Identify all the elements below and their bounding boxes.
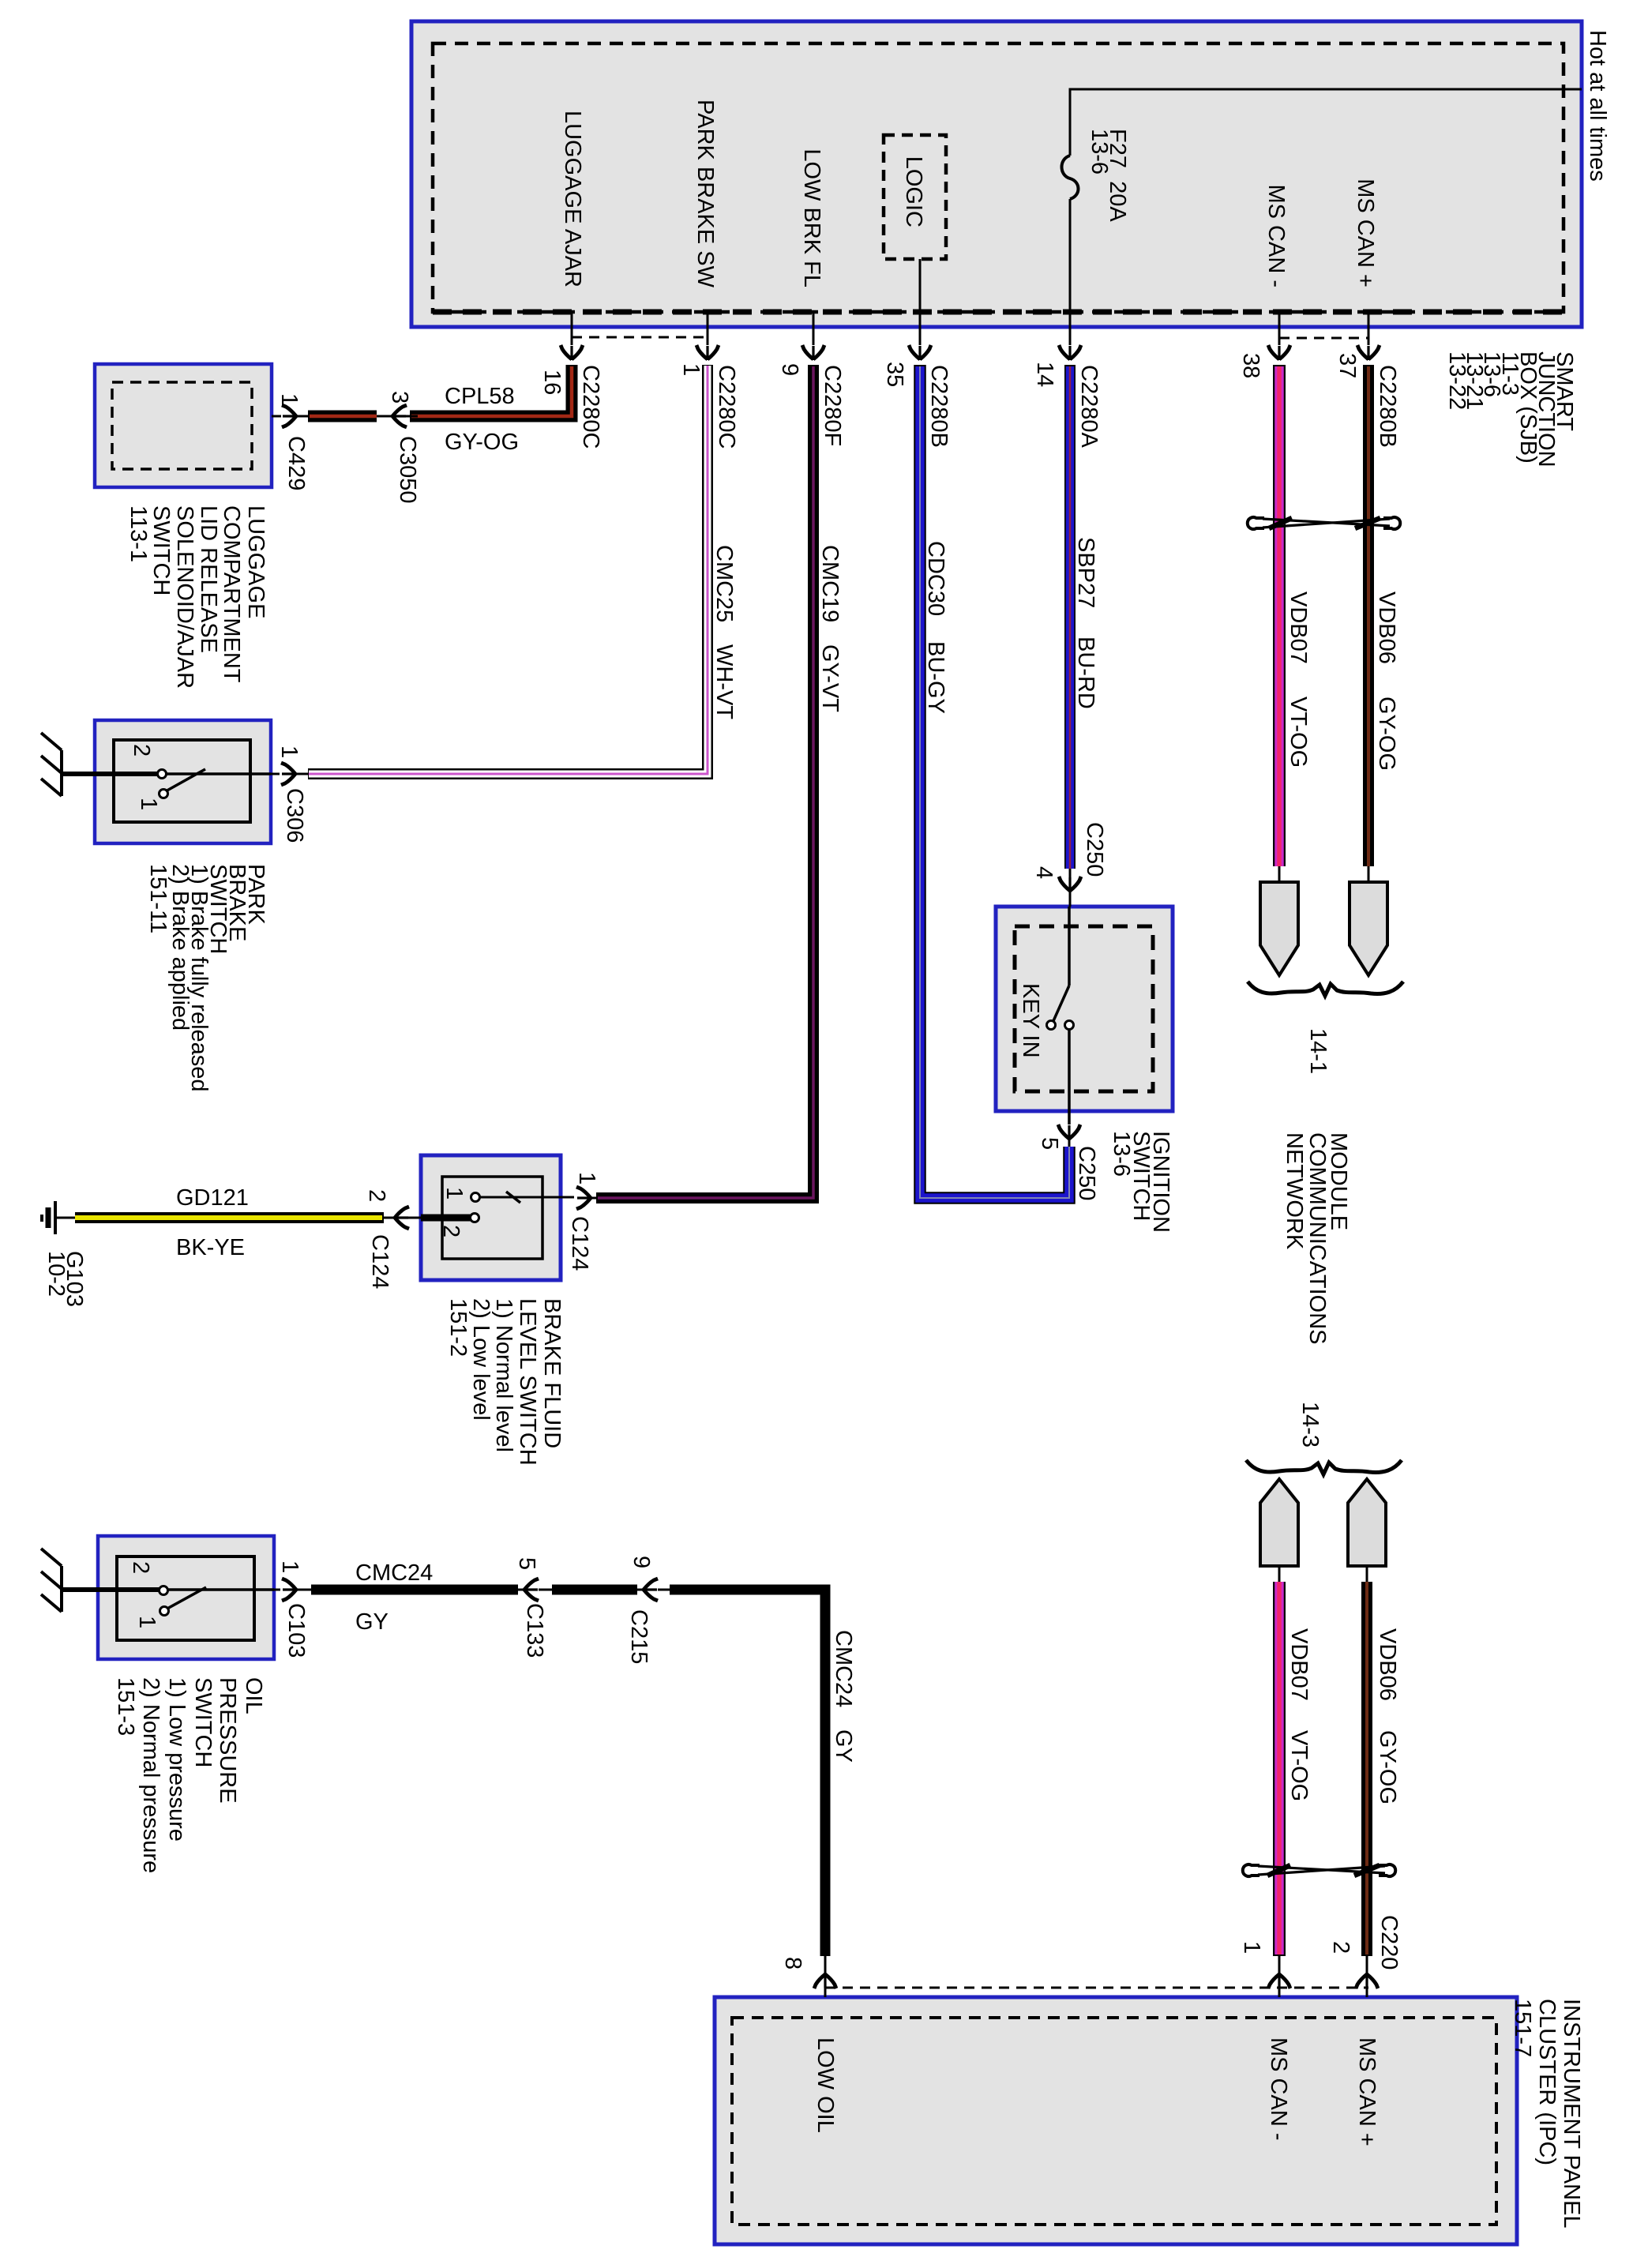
wire: pin stubs from SJB dashed border <box>571 312 573 345</box>
svg-text:C2280C: C2280C <box>714 365 739 449</box>
ignition switch box <box>996 907 1173 1111</box>
svg-text:2) Low level: 2) Low level <box>468 1298 494 1421</box>
svg-text:151-3: 151-3 <box>113 1677 138 1736</box>
svg-text:2: 2 <box>1328 1941 1353 1954</box>
connector arrows on IPC C220 (pins 8,1,2 point up) <box>814 1973 836 1988</box>
park brake switch box <box>95 720 271 843</box>
svg-text:COMMUNICATIONS: COMMUNICATIONS <box>1305 1132 1330 1345</box>
svg-text:151-11: 151-11 <box>145 864 171 933</box>
leads into upper terminals <box>1278 866 1281 882</box>
luggage compartment lid release solenoid/ajar switch box <box>95 364 272 487</box>
svg-text:C2280B: C2280B <box>926 365 952 448</box>
svg-text:C220: C220 <box>1376 1915 1402 1969</box>
svg-text:SWITCH: SWITCH <box>190 1677 216 1767</box>
wire CMC19 GY-VT from pin 9 to C124 <box>596 365 813 1198</box>
svg-text:C2280C: C2280C <box>578 365 603 449</box>
wire VDB06 GY-OG upper (MS CAN +) <box>1363 365 1374 866</box>
svg-text:1: 1 <box>678 363 704 376</box>
chassis ground at oil pressure switch <box>41 1549 62 1612</box>
svg-text:C133: C133 <box>522 1603 547 1658</box>
svg-text:BRAKE FLUID: BRAKE FLUID <box>539 1298 565 1448</box>
svg-text:9: 9 <box>629 1556 654 1568</box>
svg-text:LID RELEASE: LID RELEASE <box>196 505 221 653</box>
svg-text:C215: C215 <box>626 1609 651 1664</box>
svg-text:LUGGAGE: LUGGAGE <box>243 505 268 618</box>
circuit break squiggle lower (14-3) <box>1246 1460 1402 1474</box>
svg-text:MS CAN +: MS CAN + <box>1353 178 1378 287</box>
svg-text:KEY IN: KEY IN <box>1018 983 1043 1058</box>
svg-text:1: 1 <box>136 798 161 810</box>
svg-text:VDB06: VDB06 <box>1374 591 1399 664</box>
svg-text:C2280B: C2280B <box>1375 365 1400 448</box>
svg-text:INSTRUMENT PANEL: INSTRUMENT PANEL <box>1559 1999 1584 2229</box>
svg-text:1) Low pressure: 1) Low pressure <box>164 1677 190 1842</box>
svg-text:5: 5 <box>1037 1137 1062 1150</box>
svg-text:C250: C250 <box>1074 1146 1099 1200</box>
ignition switch internal line pin5 side <box>1068 1029 1071 1125</box>
wire CMC24 GY segment C133-C215 <box>552 1585 637 1595</box>
IPC connector C220 dashed link <box>825 1987 1368 1989</box>
connector arrow C215 pin 9 (points left) <box>643 1579 658 1601</box>
ignition switch internal line pin4 side <box>1068 907 1071 986</box>
ignition switch contacts <box>1047 1021 1056 1030</box>
svg-text:2: 2 <box>438 1225 464 1237</box>
brake fluid level switch box <box>421 1155 561 1280</box>
svg-text:C306: C306 <box>282 788 307 843</box>
brake fluid switch pin2 thick lead <box>421 1215 471 1222</box>
svg-text:MS CAN +: MS CAN + <box>1354 2037 1380 2146</box>
oil pressure switch: ground lead and through line <box>62 1587 160 1592</box>
connector arrow C250 pin 4 (points down) <box>1059 877 1081 892</box>
wire CPL58 GY-OG segment C429 to C3050 <box>308 411 377 422</box>
wire: LOGIC stub to pin 35 <box>919 259 922 345</box>
brake fluid switch internal: pin1 line <box>479 1196 543 1199</box>
svg-text:2: 2 <box>129 744 154 757</box>
svg-text:C429: C429 <box>283 436 309 490</box>
park brake switch: ground lead and through line <box>62 772 158 776</box>
svg-text:151-7: 151-7 <box>1510 1999 1535 2057</box>
connector C2280B dashed link pin38-pin37 <box>1279 337 1368 340</box>
svg-text:VT-OG: VT-OG <box>1286 697 1311 768</box>
svg-text:C2280A: C2280A <box>1076 365 1102 448</box>
svg-text:CDC30: CDC30 <box>923 541 948 616</box>
chassis ground at park brake switch <box>41 733 62 796</box>
svg-text:2: 2 <box>364 1189 389 1202</box>
svg-text:C3050: C3050 <box>395 436 420 503</box>
svg-text:13-22: 13-22 <box>1444 351 1470 410</box>
wire CMC25 WH-VT from pin 1 to C306 <box>308 365 708 774</box>
svg-text:GY-OG: GY-OG <box>1375 1730 1400 1804</box>
brake fluid level switch contacts <box>471 1193 480 1202</box>
svg-text:14: 14 <box>1032 362 1057 387</box>
svg-text:NETWORK: NETWORK <box>1282 1132 1307 1250</box>
svg-text:CMC19: CMC19 <box>817 545 843 622</box>
svg-text:CLUSTER (IPC): CLUSTER (IPC) <box>1534 1999 1560 2165</box>
svg-text:LOGIC: LOGIC <box>901 156 926 227</box>
svg-text:GY: GY <box>831 1729 856 1763</box>
svg-text:MS CAN -: MS CAN - <box>1266 2037 1291 2141</box>
svg-text:LOW BRK FL: LOW BRK FL <box>799 148 824 287</box>
svg-text:GY: GY <box>355 1609 389 1635</box>
connector arrow C306 pin 1 (points right) <box>281 763 296 785</box>
svg-text:1: 1 <box>134 1616 160 1628</box>
svg-text:BU-RD: BU-RD <box>1073 636 1098 709</box>
leads from lower terminals to wires <box>1278 1566 1281 1582</box>
svg-text:4: 4 <box>1031 866 1057 879</box>
ignition switch blade <box>1053 986 1069 1023</box>
connector arrow C250 pin 5 (points down) <box>1058 1125 1080 1140</box>
svg-text:GY-OG: GY-OG <box>1374 697 1399 771</box>
svg-text:2) Normal pressure: 2) Normal pressure <box>138 1677 163 1873</box>
svg-text:SWITCH: SWITCH <box>148 505 174 595</box>
connector arrow C133 pin 5 (points left) <box>524 1579 539 1601</box>
svg-text:CPL58: CPL58 <box>445 384 515 409</box>
thin leads C103 <box>274 1589 280 1591</box>
svg-text:13-6: 13-6 <box>1109 1131 1134 1177</box>
svg-text:3: 3 <box>387 391 412 404</box>
svg-text:8: 8 <box>780 1957 805 1969</box>
terminal lug lower left (VDB07) <box>1260 1479 1298 1566</box>
svg-text:SBP27: SBP27 <box>1073 537 1098 608</box>
terminal lug lower right (VDB06) <box>1348 1479 1386 1566</box>
svg-text:CMC25: CMC25 <box>711 545 737 622</box>
svg-text:CMC24: CMC24 <box>355 1560 433 1586</box>
oil pressure switch box <box>98 1536 274 1659</box>
svg-text:Hot at all times: Hot at all times <box>1585 30 1610 182</box>
oil pressure switch contacts <box>160 1586 168 1595</box>
svg-text:C2280F: C2280F <box>820 365 845 446</box>
svg-text:LEVEL SWITCH: LEVEL SWITCH <box>515 1298 540 1466</box>
twisted pair symbol upper <box>1248 517 1400 529</box>
svg-text:GD121: GD121 <box>176 1185 249 1211</box>
connector arrow C124 pin 1 (points right) <box>576 1187 591 1209</box>
instrument panel cluster IPC box <box>715 1997 1517 2244</box>
svg-text:10-2: 10-2 <box>43 1251 69 1297</box>
svg-text:MS CAN -: MS CAN - <box>1263 185 1289 288</box>
wire VDB06 GY-OG lower <box>1361 1582 1372 1956</box>
svg-text:1: 1 <box>441 1187 467 1200</box>
wire SBP27 BU-RD from pin 14 <box>1064 365 1076 869</box>
brake fluid switch blade tick <box>506 1192 520 1203</box>
svg-text:1: 1 <box>276 745 302 758</box>
svg-text:PARK BRAKE SW: PARK BRAKE SW <box>693 100 718 288</box>
svg-text:9: 9 <box>777 363 802 376</box>
svg-text:C250: C250 <box>1082 822 1107 877</box>
svg-text:LUGGAGE AJAR: LUGGAGE AJAR <box>560 111 585 287</box>
svg-text:SOLENOID/AJAR: SOLENOID/AJAR <box>172 505 197 689</box>
svg-text:14-3: 14-3 <box>1297 1402 1323 1448</box>
svg-text:VDB07: VDB07 <box>1286 591 1311 664</box>
connector C2280C dashed link pin16-pin1 <box>572 336 708 339</box>
svg-text:PRESSURE: PRESSURE <box>215 1677 240 1804</box>
oil pressure switch blade <box>166 1587 206 1609</box>
svg-text:C124: C124 <box>367 1234 392 1289</box>
svg-text:LOW OIL: LOW OIL <box>813 2037 838 2133</box>
svg-text:13-6: 13-6 <box>1087 129 1112 175</box>
svg-text:1: 1 <box>277 1560 302 1573</box>
connector arrow C429 pin 1 (points right) <box>282 405 297 427</box>
wire CMC24 GY segment C215 to IPC pin 8 <box>670 1590 825 1956</box>
twisted pair symbol lower <box>1243 1864 1395 1876</box>
svg-text:C103: C103 <box>283 1603 309 1658</box>
wire: hot at all times feed to fuse F27 <box>1070 89 1582 156</box>
svg-text:VDB07: VDB07 <box>1286 1628 1312 1701</box>
svg-text:1: 1 <box>574 1172 599 1185</box>
svg-text:COMPARTMENT: COMPARTMENT <box>219 505 244 683</box>
svg-text:OIL: OIL <box>241 1677 266 1714</box>
wire GD121 BK-YE ground wire <box>75 1212 384 1223</box>
thin leads around C429 / C3050 <box>272 415 281 418</box>
wire CDC30 BU-GY from pin 35 to C250 pin5 <box>920 365 1069 1198</box>
wire CMC24 GY segment C103-C133 <box>311 1585 518 1595</box>
connector arrow C103 pin 1 (points right) <box>282 1579 297 1601</box>
terminal lug upper right (VDB06) <box>1350 882 1387 975</box>
svg-text:113-1: 113-1 <box>126 505 151 562</box>
svg-text:CMC24: CMC24 <box>831 1630 856 1707</box>
fuse F27 20A <box>1062 156 1079 199</box>
svg-text:VT-OG: VT-OG <box>1286 1730 1312 1801</box>
svg-text:BK-YE: BK-YE <box>176 1235 245 1260</box>
svg-text:16: 16 <box>539 370 565 395</box>
svg-text:1: 1 <box>1239 1941 1264 1954</box>
wire VDB07 VT-OG lower <box>1273 1582 1286 1956</box>
earth ground G103 <box>42 1201 55 1234</box>
svg-text:WH-VT: WH-VT <box>711 644 737 719</box>
svg-text:151-2: 151-2 <box>445 1298 471 1357</box>
park brake switch blade <box>164 769 205 792</box>
svg-text:37: 37 <box>1335 353 1360 378</box>
park brake switch contacts <box>158 770 167 779</box>
wire CPL58 GY-OG segment from pin 16 <box>410 365 572 416</box>
svg-text:14-1: 14-1 <box>1305 1028 1331 1074</box>
svg-text:5: 5 <box>514 1557 539 1570</box>
wire VDB07 VT-OG upper (MS CAN -) <box>1273 365 1286 866</box>
svg-text:38: 38 <box>1238 353 1263 378</box>
svg-text:1) Normal level: 1) Normal level <box>491 1298 516 1452</box>
svg-text:C124: C124 <box>567 1216 592 1271</box>
svg-text:BU-GY: BU-GY <box>923 641 948 714</box>
svg-text:GY-VT: GY-VT <box>817 644 843 712</box>
svg-text:GY-OG: GY-OG <box>445 430 519 455</box>
connector pin arrows on SJB C2280 (pins 16,1,9,35,14,38,37) <box>561 345 583 360</box>
LOGIC dashed box <box>884 135 946 259</box>
svg-text:35: 35 <box>882 362 907 387</box>
circuit break squiggle upper (14-1) <box>1248 982 1403 996</box>
connector arrow C3050 pin 3 (points left) <box>392 405 407 427</box>
svg-text:1: 1 <box>276 393 302 406</box>
svg-text:2: 2 <box>128 1561 153 1574</box>
smart junction box SJB <box>411 21 1582 327</box>
terminal lug upper left (VDB07) <box>1260 882 1298 975</box>
svg-text:VDB06: VDB06 <box>1375 1628 1400 1701</box>
connector arrow C124 pin 2 (points left) <box>394 1207 409 1229</box>
leads wires to IPC arrows <box>1278 1956 1281 1974</box>
